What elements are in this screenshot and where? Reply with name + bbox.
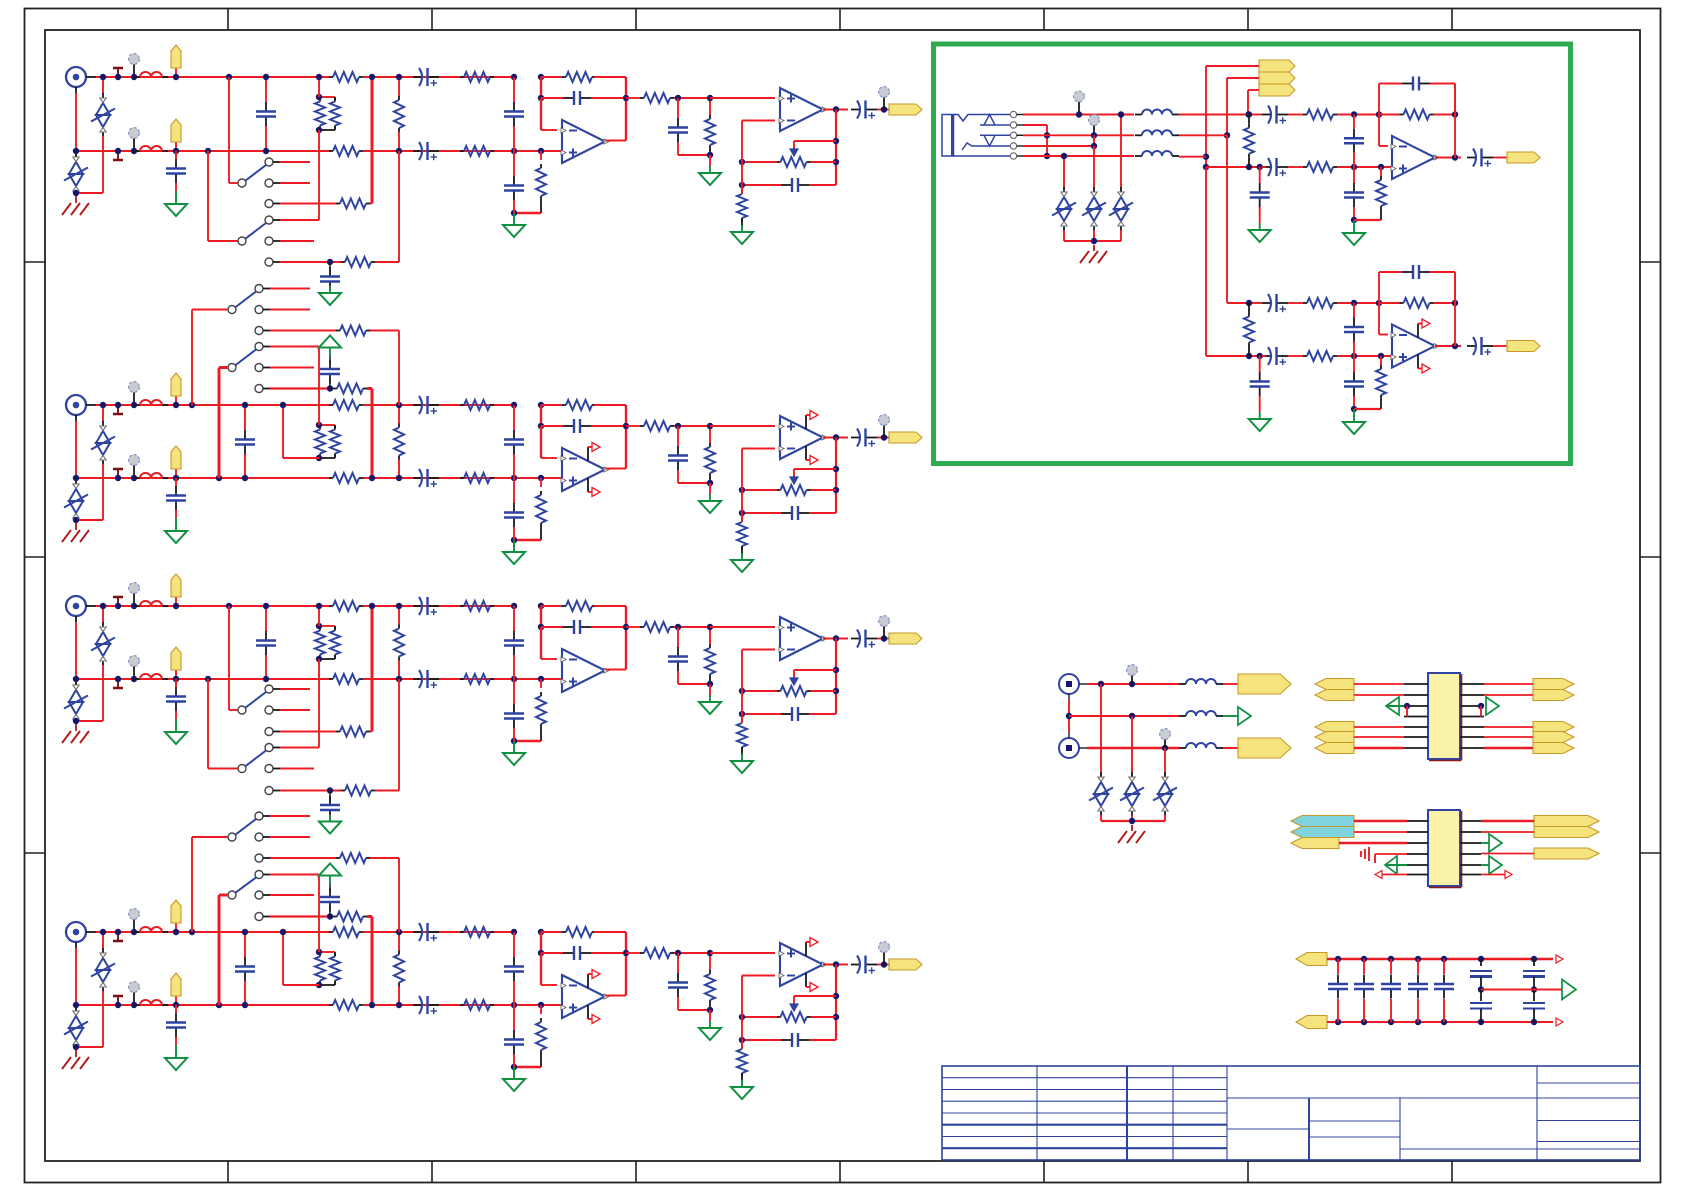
ch1 gain trimmer wiper wire	[794, 140, 836, 142]
ch3 output capacitor	[851, 638, 860, 640]
border zone ticks right	[1640, 261, 1661, 263]
U10 left flag 5	[1315, 743, 1354, 754]
ch4 ferrite bead FB4a	[134, 931, 140, 933]
ch4 selector blade 2	[228, 891, 236, 899]
ch3 stage1 noninverting RC capacitor	[513, 679, 515, 704]
decoupling capacitor C91	[1361, 956, 1367, 962]
ch4 op-amp U4b	[780, 943, 823, 986]
ch2 switch stub row1	[270, 309, 310, 311]
ch4 op-amp U4a power markers	[587, 974, 589, 988]
jack chassis ground	[1093, 245, 1095, 251]
ch4 wire to inverting input	[540, 953, 542, 985]
ch2 capacitor across pair	[244, 405, 246, 430]
ch1 wire to noninverting input stage2	[710, 97, 775, 99]
ch4 feedback ground resistor	[741, 1045, 743, 1049]
jack TVS diode 1	[1063, 156, 1065, 188]
ch2 wire to noninverting input stage2	[710, 425, 775, 427]
ch3 ground for input capacitor	[175, 719, 177, 725]
U10 right flag 4	[1533, 732, 1574, 743]
ch4 capacitor across pair	[244, 932, 246, 957]
ch3 stage1 RC ground	[513, 741, 515, 747]
ch2 switch row5 power symbol	[329, 348, 331, 356]
ch3 parallel resistor pair	[319, 625, 335, 627]
ch4 switch stub row0	[270, 815, 310, 817]
bulk capacitor C95 lower	[1480, 990, 1482, 1002]
ch4 stage2 shunt ground	[709, 1010, 711, 1022]
ch2 net flag bottom	[175, 469, 177, 478]
ch2 series resistor top row	[329, 404, 333, 406]
ch2 net node marker top	[133, 391, 135, 405]
ch2 op-amp U2b	[780, 416, 823, 459]
ch3 selector switch contacts	[265, 685, 273, 693]
ch2 switch feed from bottom row	[216, 475, 222, 481]
ch2 selector blade 2	[228, 364, 236, 372]
ch1 wire TVS common	[76, 192, 103, 194]
ch2 feedback ground resistor	[741, 518, 743, 522]
ch2 stage1 RC bottom bar	[514, 539, 541, 542]
ch1 stage1 feedback resistor	[562, 76, 566, 78]
ch2 wire parallel pair detour	[283, 457, 319, 459]
ch4 ferrite bead FB4b	[134, 1004, 140, 1006]
ch4 switch stub row4	[270, 894, 314, 896]
ch4 wire parallel pair to switch	[318, 875, 320, 953]
box stage lower output net flag	[1507, 341, 1540, 352]
ch4 wire inverting input stage2	[741, 976, 743, 1041]
ch4 stage2 output wire	[823, 964, 848, 966]
ch1 feedback capacitor	[781, 184, 792, 186]
ch2 selector blade 1	[228, 306, 236, 314]
decoupling mid port	[1562, 980, 1576, 1000]
ch3 selector blade 1	[238, 706, 246, 714]
ch1 TVS diode D1b	[75, 151, 77, 153]
ch3 net node marker top	[133, 592, 135, 606]
ch4 coupling capacitor bottom	[413, 1004, 439, 1006]
power link vertical	[1068, 700, 1070, 732]
ch2 selector switch contacts	[255, 285, 263, 293]
ch1 series resistor top row	[329, 76, 333, 78]
box stage upper shunt capacitor on plus input	[1259, 167, 1261, 183]
ch1 switch row5 resistor	[280, 261, 341, 263]
U11 right arrow	[1505, 871, 1512, 879]
ch1 gain trimmer RV1	[777, 161, 781, 163]
ch2 gain trimmer RV2	[777, 489, 781, 491]
U11 right port 1	[1489, 834, 1502, 852]
U11 right flag 3	[1534, 848, 1599, 859]
title block outer	[942, 1066, 1640, 1160]
ch3 stage1 output wire	[605, 669, 626, 671]
box stage upper feedback vertical	[1454, 84, 1456, 158]
power row3 inductor	[1179, 747, 1186, 749]
highlight box	[934, 44, 1571, 464]
ch3 stage2 shunt resistor	[709, 644, 711, 648]
box stage lower wire to inverting input	[1378, 303, 1380, 335]
ch2 coupling capacitor top	[413, 404, 439, 406]
ch3 net flag bottom	[175, 670, 177, 679]
title block revision columns	[1036, 1066, 1038, 1160]
ch3 TVS diode D3b	[75, 679, 77, 681]
U10 right flag 2	[1533, 690, 1574, 701]
ch4 test point TP4a	[117, 932, 119, 941]
ch1 switch feed from bottom row	[205, 148, 211, 154]
ch1 stage2 shunt capacitor	[677, 98, 679, 118]
ch4 stage2 shunt resistor	[709, 970, 711, 974]
ch4 stage1 RC bottom bar	[514, 1066, 541, 1069]
ch3 chassis ground	[75, 725, 77, 731]
ch3 feedback ground	[741, 754, 743, 761]
ch2 wire parallel pair to switch	[318, 347, 320, 426]
ch3 resistor to stage1 bottom	[439, 678, 562, 680]
box stage upper op-amp	[1392, 136, 1435, 179]
ch4 output net flag	[889, 959, 922, 970]
ch3 shunt capacitor at input	[175, 679, 177, 687]
jack TVS common bar	[1063, 230, 1065, 241]
ch3 stage1 noninverting RC resistor	[540, 679, 542, 688]
U11 left port	[1385, 856, 1397, 874]
ch4 wire shield vertical	[75, 948, 77, 1005]
ch2 op-amp U2a	[562, 448, 605, 491]
ch3 feedback network vertical	[835, 639, 837, 715]
ch4 parallel resistor pair	[319, 951, 335, 953]
ch3 wire inverting input stage2	[741, 650, 743, 715]
ch2 series resistor bottom row	[329, 477, 333, 479]
box stage upper output capacitor	[1467, 157, 1476, 159]
ch1 test point TP1b	[117, 151, 119, 160]
title block right column	[1536, 1066, 1538, 1160]
border zone ticks bottom	[227, 1161, 229, 1183]
ch3 op-amp U3a	[562, 649, 605, 692]
ch4 wire to noninverting input stage2	[710, 952, 775, 954]
ch1 switch row5 capacitor	[329, 262, 331, 272]
ch4 op-amp U4a	[562, 975, 605, 1018]
ch4 switch row5 capacitor	[329, 907, 331, 917]
box stage upper output net flag	[1507, 152, 1540, 163]
ch4 gain trimmer wiper wire	[794, 995, 836, 997]
jack TVS diode 3	[1120, 115, 1122, 189]
ch4 op-amp U4b power markers	[805, 942, 807, 956]
ch3 net flag top	[175, 597, 177, 606]
ch1 selector blade 2	[238, 237, 246, 245]
ch1 switch stub row4	[280, 240, 314, 242]
ch2 parallel resistor pair	[319, 424, 335, 426]
decoupling rail flag top	[1296, 953, 1327, 966]
ch2 TVS diode D2a	[102, 405, 104, 422]
power TVS 3	[1164, 748, 1166, 773]
ch3 capacitor across pair	[265, 606, 267, 631]
power row2 inductor	[1179, 715, 1186, 717]
ch1 series resistor bottom row	[329, 150, 333, 152]
ch4 switch feed from top row	[189, 929, 195, 935]
interface IC U11	[1428, 810, 1460, 886]
U11 pins right	[1460, 820, 1481, 822]
decoupling rail flag bottom	[1296, 1016, 1327, 1029]
ch2 net flag top	[175, 396, 177, 405]
decoupling top rail arrow	[1556, 955, 1563, 963]
ch3 switch feed from top row	[226, 603, 232, 609]
U11 pins left	[1407, 820, 1428, 822]
ch2 capacitor between stage inputs	[513, 405, 515, 430]
ch1 switch feed from top row	[226, 74, 232, 80]
ch3 stage1 feedback resistor	[562, 605, 566, 607]
power connector P2	[1059, 738, 1079, 758]
box stage lower capacitor between paths	[1353, 318, 1355, 327]
ch3 test point TP3b	[117, 679, 119, 688]
ch4 RCA input connector J4	[66, 922, 86, 942]
ch2 resistor to stage1 top	[439, 404, 514, 406]
U11 yellow flag left	[1291, 838, 1339, 849]
ch3 TVS diode D3a	[102, 606, 104, 623]
ch3 output node marker	[883, 625, 885, 639]
ch2 wire TVS common	[76, 519, 103, 521]
ch4 stage1 feedback resistor	[562, 931, 566, 933]
box stage upper input resistor plus	[1303, 166, 1307, 168]
ch3 switch stub row0	[280, 688, 310, 690]
power row1 inductor	[1179, 683, 1186, 685]
ch2 switch row5 capacitor	[329, 379, 331, 389]
ch2 stage2 output wire	[823, 437, 848, 439]
ch3 wire input top row	[96, 605, 330, 607]
ch1 ferrite bead FB1a	[134, 76, 140, 78]
ch1 wire input top row	[96, 76, 330, 78]
ch3 wire TVS common	[76, 720, 103, 722]
box stage upper wire to inverting input	[1378, 115, 1380, 147]
ch4 TVS diode D4b	[75, 1005, 77, 1007]
bulk capacitor C96 lower	[1533, 990, 1535, 1002]
ch2 TVS diode D2b	[75, 478, 77, 480]
U10 pins right	[1460, 683, 1484, 685]
interface IC U10	[1428, 673, 1460, 759]
power row1 wire	[1087, 683, 1179, 685]
ch2 stage1 feedback resistor	[562, 404, 566, 406]
ch1 ferrite bead FB1b	[134, 150, 140, 152]
ch1 stage1 noninverting RC resistor	[540, 151, 542, 160]
box stage lower input coupling cap minus	[1262, 302, 1271, 304]
ch4 ground for input capacitor	[175, 1045, 177, 1051]
ch2 wire shield vertical	[75, 421, 77, 478]
ch3 stage1 RC bottom bar	[514, 740, 541, 743]
ch4 wire top row to feedback node	[541, 931, 562, 933]
box net flag 1	[1259, 60, 1295, 72]
ch3 wire to inverting input	[540, 627, 542, 659]
ch4 net flag top	[175, 923, 177, 932]
ch1 stage2 output wire	[823, 109, 848, 111]
ch1 feedback ground resistor	[741, 190, 743, 194]
ch3 wire parallel pair to switch	[318, 659, 320, 748]
ch3 series resistor bottom row	[329, 678, 333, 680]
box lower feed 2	[1205, 167, 1207, 356]
box stage lower RC ground	[1353, 409, 1355, 416]
ch1 wire parallel pair to top row	[318, 77, 320, 97]
ch2 stage2 shunt capacitor	[677, 426, 679, 446]
box stage lower feedback resistor	[1400, 302, 1404, 304]
decoupling capacitor C90	[1335, 956, 1341, 962]
ch4 coupling capacitor top	[413, 931, 439, 933]
ch3 selector blade 2	[238, 765, 246, 773]
ch1 stage1 feedback capacitor	[540, 77, 542, 98]
ch1 switch stub row0	[280, 161, 310, 163]
box net flag 2	[1259, 72, 1295, 84]
ch2 stage1 noninverting RC resistor	[540, 478, 542, 487]
ch3 gain trimmer wiper wire	[794, 669, 836, 671]
ch3 ferrite bead FB3a	[134, 605, 140, 607]
jack row4 wire	[1023, 145, 1094, 147]
ch3 stage2 output wire	[823, 638, 848, 640]
title block middle cells	[1308, 1098, 1310, 1160]
ch1 net flag top	[175, 68, 177, 77]
ch2 switch row5 resistor	[270, 387, 333, 389]
box stage upper RC shunt capacitor	[1353, 167, 1355, 183]
ch2 interstage resistor	[626, 425, 640, 427]
ch4 stage1 output wire	[605, 995, 626, 997]
ch1 net flag bottom	[175, 142, 177, 151]
ch2 test point TP2b	[117, 469, 119, 478]
box stage upper shunt capacitor ground	[1259, 223, 1261, 230]
box row3 wire end	[1179, 134, 1227, 136]
box stage upper input coupling cap plus	[1262, 166, 1271, 168]
decoupling bottom rail arrow	[1556, 1018, 1563, 1026]
ch1 output capacitor	[851, 109, 860, 111]
ch1 op-amp U1a	[562, 120, 605, 163]
ch2 output node marker	[883, 424, 885, 438]
ch1 wire input bottom row	[76, 150, 330, 152]
ch2 wire inverting input stage2	[741, 449, 743, 514]
power row3 node marker	[1164, 738, 1166, 748]
ch2 stage1 noninverting RC capacitor	[513, 478, 515, 503]
box stage lower output wire	[1435, 345, 1461, 347]
ch3 wire input bottom row	[76, 678, 330, 680]
ch4 selector switch contacts	[255, 812, 263, 820]
ch2 feedback ground	[741, 553, 743, 560]
ch1 wire to inverting input	[540, 98, 542, 130]
ch2 stage1 RC ground	[513, 540, 515, 546]
ch2 switch stub row0	[270, 288, 310, 290]
decoupling capacitor C94	[1441, 956, 1447, 962]
ch4 stage1 noninverting RC resistor	[540, 1005, 542, 1014]
ch2 shunt capacitor at input	[175, 478, 177, 486]
power row2 wire out	[1223, 715, 1238, 717]
ch1 stage1 noninverting RC capacitor	[513, 151, 515, 176]
power TVS 1	[1100, 684, 1102, 773]
ch2 resistor across pair	[398, 424, 400, 428]
box stage lower input resistor minus	[1303, 302, 1307, 304]
ch2 output net flag	[889, 432, 922, 443]
box stage upper capacitor between paths	[1353, 129, 1355, 138]
ch2 switch row2 resistor	[270, 330, 336, 332]
ch3 stage2 shunt ground	[709, 684, 711, 696]
ch3 resistor across pair	[398, 625, 400, 629]
U10 right flag 1	[1533, 679, 1574, 690]
ch3 feedback ground resistor	[741, 719, 743, 723]
ch2 ground for input capacitor	[175, 518, 177, 524]
ch4 switch stub row1	[270, 836, 310, 838]
ch4 wire TVS common	[76, 1046, 103, 1048]
ch2 ferrite bead FB2a	[134, 404, 140, 406]
ch1 RCA input connector J1	[66, 67, 86, 87]
U11 signal ground symbol	[1374, 854, 1376, 863]
ch1 selector switch contacts	[265, 158, 273, 166]
U11 right flag 2	[1534, 827, 1599, 838]
U11 right flag 1	[1534, 816, 1599, 827]
ch2 op-amp U2b power markers	[805, 415, 807, 429]
box stage upper feedback resistor	[1400, 114, 1404, 116]
ch1 shunt capacitor at input	[175, 151, 177, 159]
ch4 wire input top row	[96, 931, 330, 933]
box stage lower op-amp power markers	[1417, 324, 1419, 338]
ch2 net node marker bottom	[133, 464, 135, 478]
box stage lower vertical resistor between paths	[1248, 313, 1250, 317]
box stage upper RC ground	[1353, 220, 1355, 227]
ch4 net node marker bottom	[133, 991, 135, 1005]
U11 cyan flag 2	[1291, 827, 1354, 838]
title block revision rows	[942, 1077, 1227, 1079]
ch4 stage2 shunt capacitor	[677, 953, 679, 973]
ch1 stage1 output wire	[605, 140, 626, 142]
box stage upper feedback capacitor	[1402, 83, 1413, 85]
ch4 switch row3 wire	[270, 874, 319, 876]
ch3 capacitor between stage inputs	[513, 606, 515, 631]
box stage lower input resistor plus	[1303, 355, 1307, 357]
ch1 ground for input capacitor	[175, 191, 177, 197]
ch4 switch row5 power symbol	[329, 876, 331, 884]
ch3 interstage resistor	[626, 626, 640, 628]
ch3 wire shield vertical	[75, 622, 77, 679]
ch4 output capacitor	[851, 964, 860, 966]
ch4 feedback network vertical	[835, 965, 837, 1041]
ch3 wire top row to feedback node	[541, 605, 562, 607]
box stage lower shunt capacitor on plus input	[1259, 356, 1261, 372]
power row1 node marker	[1131, 674, 1133, 684]
U10 left flag 2	[1315, 690, 1354, 701]
box stage lower RC shunt capacitor	[1353, 356, 1355, 372]
border zone ticks top	[227, 9, 229, 31]
box stage lower input coupling cap plus	[1262, 355, 1271, 357]
jack TVS diode 2	[1093, 135, 1095, 146]
jack inductor L2	[1135, 134, 1142, 136]
box row1 wire to minus path	[1179, 114, 1253, 116]
ch4 net node marker top	[133, 918, 135, 932]
border zone ticks left	[25, 261, 46, 263]
ch3 switch row2 resistor	[280, 731, 336, 733]
ch1 switch row3 wire	[280, 219, 319, 221]
ch4 gain trimmer RV4	[777, 1016, 781, 1018]
ch4 wire parallel pair detour	[283, 984, 319, 986]
box stage upper plus path wire	[1206, 166, 1266, 168]
ch1 feedback network vertical	[835, 110, 837, 186]
ch3 op-amp U3b	[780, 617, 823, 660]
box flag3 wire	[1248, 89, 1259, 91]
ch1 resistor across pair	[398, 96, 400, 100]
ch4 series resistor bottom row	[329, 1004, 333, 1006]
power row1 flag	[1238, 674, 1291, 694]
ch2 resistor to stage1 bottom	[439, 477, 562, 479]
U10 right flag 5	[1533, 743, 1574, 754]
ch2 stage2 shunt ground	[709, 483, 711, 495]
bulk capacitor C96 upper	[1531, 956, 1537, 962]
ch3 series resistor top row	[329, 605, 333, 607]
ch2 test point TP2a	[117, 405, 119, 414]
jack row1 wire	[1023, 114, 1134, 116]
ch3 switch row3 wire	[280, 747, 319, 749]
power row2 port	[1238, 707, 1251, 725]
ch1 test point TP1a	[117, 68, 119, 77]
decoupling top rail	[1327, 958, 1553, 961]
ch3 stage2 shunt capacitor	[677, 627, 679, 647]
ch1 stage1 RC ground	[513, 213, 515, 219]
U10 right flag 3	[1533, 722, 1574, 733]
ch1 net node marker bottom	[133, 137, 135, 151]
box stage lower plus path wire	[1206, 355, 1266, 357]
ch2 switch row3 wire	[270, 346, 319, 348]
ch3 RCA input connector J3	[66, 596, 86, 616]
